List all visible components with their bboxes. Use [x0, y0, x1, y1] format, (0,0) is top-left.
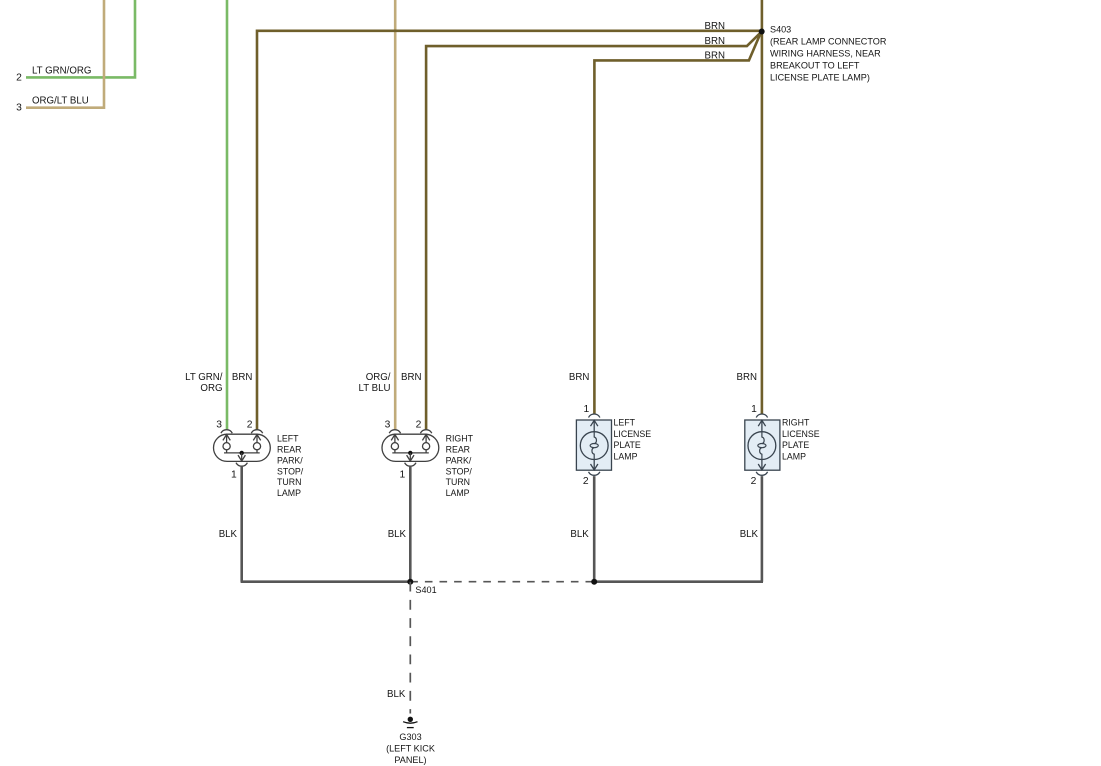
wire ORG/LT BLU stub from connector pin 3 (top left) [26, 0, 104, 108]
lamp RIGHT LICENSE PLATE LAMP [745, 414, 780, 475]
pin 1 arrow down [241, 453, 243, 461]
svg-text:REAR: REAR [446, 444, 470, 454]
pin 3 arrow [223, 435, 230, 441]
bulb [580, 432, 608, 460]
ground G303 symbol [403, 717, 417, 728]
svg-text:1: 1 [399, 470, 405, 481]
lamp RIGHT REAR PARK/STOP/TURN LAMP [382, 430, 439, 466]
svg-text:3: 3 [216, 419, 222, 430]
svg-text:BLK: BLK [740, 529, 759, 540]
svg-text:2: 2 [16, 73, 22, 84]
svg-text:1: 1 [751, 404, 757, 415]
pin 2 connector arc [589, 472, 600, 475]
pin 1 connector arc [589, 414, 600, 417]
svg-text:LT BLU: LT BLU [359, 383, 391, 394]
svg-text:LEFT: LEFT [614, 418, 636, 428]
lamp LEFT REAR PARK/STOP/TURN LAMP [214, 430, 271, 466]
filament common bar [224, 452, 260, 454]
wire BLK ground bus (right solid segment) [594, 580, 763, 583]
junction dot at left license drop [591, 579, 597, 585]
wire BLK ground bus (left solid segment) [241, 580, 411, 583]
svg-text:RIGHT: RIGHT [782, 418, 810, 428]
svg-text:BRN: BRN [705, 21, 725, 32]
svg-text:S403: S403 [770, 24, 791, 34]
wire BLK from right license lamp pin 2 [761, 476, 764, 582]
svg-text:LAMP: LAMP [446, 488, 470, 498]
pin 2 connector arc [251, 430, 262, 433]
svg-text:(LEFT KICK: (LEFT KICK [386, 744, 435, 754]
label S403 description [770, 24, 887, 82]
label LEFT REAR PARK/STOP/TURN LAMP [277, 433, 304, 498]
svg-text:BRN: BRN [401, 372, 421, 383]
svg-text:TURN: TURN [277, 477, 301, 487]
label G303 (LEFT KICK PANEL) [386, 732, 435, 765]
svg-text:LAMP: LAMP [782, 451, 806, 461]
svg-text:BRN: BRN [232, 372, 252, 383]
pin 2 filament loop [253, 435, 260, 441]
svg-text:LICENSE: LICENSE [782, 429, 820, 439]
splice S401 junction dot [407, 579, 413, 585]
pin 1 connector arc [236, 463, 247, 466]
wire BLK from right rear lamp pin 1 [409, 467, 412, 582]
pin 3 filament loop [223, 443, 230, 450]
label RIGHT LICENSE PLATE LAMP [782, 418, 820, 462]
svg-text:1: 1 [583, 404, 589, 415]
svg-text:BLK: BLK [570, 529, 589, 540]
wire ORG/LT BLU vertical to right rear lamp pin 3 [394, 0, 397, 429]
svg-text:2: 2 [247, 419, 253, 430]
pin 1 arrow [591, 420, 598, 426]
svg-text:ORG/LT BLU: ORG/LT BLU [32, 96, 89, 107]
svg-text:BLK: BLK [387, 689, 406, 700]
wire LT GRN/ORG vertical to left rear lamp pin 3 [226, 0, 229, 429]
svg-text:LEFT: LEFT [277, 433, 299, 443]
svg-text:3: 3 [16, 103, 22, 114]
splice S403 junction dot [759, 29, 765, 35]
filament [592, 432, 597, 460]
svg-text:BREAKOUT TO LEFT: BREAKOUT TO LEFT [770, 60, 860, 70]
wire BLK from left license lamp pin 2 [593, 476, 596, 582]
svg-text:S401: S401 [415, 585, 436, 595]
wire dashed bus segment S401 to junction [410, 581, 594, 583]
svg-text:G303: G303 [399, 732, 421, 742]
lamp body [214, 434, 271, 461]
svg-text:BRN: BRN [569, 372, 589, 383]
label LEFT LICENSE PLATE LAMP [614, 418, 652, 462]
svg-text:PANEL): PANEL) [394, 755, 426, 765]
lamp LEFT LICENSE PLATE LAMP [576, 414, 611, 475]
svg-text:REAR: REAR [277, 444, 301, 454]
svg-text:BRN: BRN [705, 50, 725, 61]
wire BRN riser through S403 to right license lamp pin 1 [761, 0, 764, 414]
svg-text:STOP/: STOP/ [446, 466, 473, 476]
svg-text:ORG: ORG [200, 383, 222, 394]
svg-text:STOP/: STOP/ [277, 466, 304, 476]
svg-text:2: 2 [416, 419, 422, 430]
svg-text:WIRING HARNESS, NEAR: WIRING HARNESS, NEAR [770, 48, 881, 58]
svg-text:(REAR LAMP CONNECTOR: (REAR LAMP CONNECTOR [770, 36, 887, 46]
svg-text:PLATE: PLATE [614, 440, 641, 450]
label RIGHT REAR PARK/STOP/TURN LAMP [446, 433, 474, 498]
wire BLK from left rear lamp pin 1 [240, 467, 243, 582]
svg-text:2: 2 [583, 476, 589, 487]
svg-text:LAMP: LAMP [614, 451, 638, 461]
svg-text:LICENSE: LICENSE [614, 429, 652, 439]
wire BRN from left license lamp pin 1 to splice S403 [594, 33, 760, 414]
pin 3 connector arc [221, 430, 232, 433]
svg-text:TURN: TURN [446, 477, 470, 487]
svg-text:PLATE: PLATE [782, 440, 809, 450]
wire BRN from left rear lamp pin 2 to splice S403 [257, 31, 762, 429]
svg-text:BLK: BLK [219, 529, 238, 540]
svg-text:3: 3 [385, 419, 391, 430]
wire LT GRN/ORG stub from connector pin 2 (top left) [26, 0, 135, 77]
svg-text:BLK: BLK [388, 529, 407, 540]
svg-text:LAMP: LAMP [277, 488, 301, 498]
pin 2 arrow down [593, 460, 595, 471]
common junction dot [240, 451, 244, 455]
svg-text:2: 2 [751, 476, 757, 487]
svg-text:ORG/: ORG/ [366, 372, 391, 383]
svg-text:RIGHT: RIGHT [446, 433, 474, 443]
svg-text:LT GRN/: LT GRN/ [185, 372, 223, 383]
svg-text:LICENSE PLATE LAMP): LICENSE PLATE LAMP) [770, 72, 870, 82]
svg-text:LT GRN/ORG: LT GRN/ORG [32, 66, 91, 77]
wire BRN from right rear lamp pin 2 to splice S403 [426, 32, 761, 429]
wire BLK dashed drop from S401 to ground [409, 582, 411, 714]
svg-text:PARK/: PARK/ [277, 455, 303, 465]
svg-text:1: 1 [231, 470, 237, 481]
svg-text:BRN: BRN [737, 372, 757, 383]
svg-text:BRN: BRN [705, 36, 725, 47]
lamp body [576, 420, 611, 470]
svg-text:PARK/: PARK/ [446, 455, 472, 465]
